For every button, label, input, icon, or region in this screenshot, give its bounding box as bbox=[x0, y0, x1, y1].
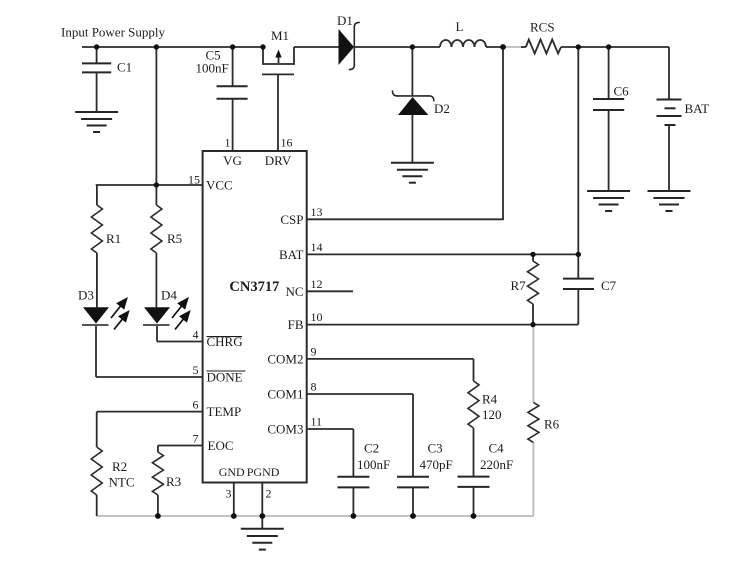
svg-text:C3: C3 bbox=[428, 441, 443, 456]
svg-text:CHRG: CHRG bbox=[207, 334, 243, 349]
svg-text:BAT: BAT bbox=[279, 247, 304, 262]
svg-text:FB: FB bbox=[288, 317, 304, 332]
svg-text:BAT: BAT bbox=[685, 101, 710, 116]
svg-text:D1: D1 bbox=[337, 13, 353, 28]
svg-text:NC: NC bbox=[285, 284, 303, 299]
svg-text:11: 11 bbox=[311, 415, 323, 429]
svg-text:COM1: COM1 bbox=[267, 387, 303, 402]
svg-text:CN3717: CN3717 bbox=[229, 279, 279, 295]
svg-text:VCC: VCC bbox=[206, 178, 233, 193]
svg-text:2: 2 bbox=[266, 487, 272, 501]
svg-text:4: 4 bbox=[193, 328, 199, 342]
svg-text:9: 9 bbox=[311, 344, 317, 358]
svg-text:120: 120 bbox=[482, 407, 502, 422]
svg-text:C2: C2 bbox=[364, 441, 379, 456]
svg-text:5: 5 bbox=[193, 363, 199, 377]
svg-text:1: 1 bbox=[225, 136, 231, 150]
svg-text:C7: C7 bbox=[601, 278, 617, 293]
svg-text:470pF: 470pF bbox=[420, 457, 453, 472]
svg-text:CSP: CSP bbox=[280, 212, 303, 227]
svg-text:R4: R4 bbox=[482, 392, 498, 407]
svg-text:10: 10 bbox=[311, 310, 323, 324]
svg-text:R1: R1 bbox=[106, 231, 121, 246]
svg-text:220nF: 220nF bbox=[480, 457, 513, 472]
svg-text:3: 3 bbox=[226, 487, 232, 501]
svg-text:C1: C1 bbox=[117, 60, 132, 75]
svg-text:C4: C4 bbox=[489, 441, 505, 456]
svg-text:RCS: RCS bbox=[530, 20, 555, 35]
svg-text:PGND: PGND bbox=[247, 465, 280, 479]
svg-text:D3: D3 bbox=[78, 288, 94, 303]
svg-text:R5: R5 bbox=[167, 231, 182, 246]
svg-text:6: 6 bbox=[193, 398, 199, 412]
svg-text:GND: GND bbox=[219, 465, 245, 479]
svg-text:COM2: COM2 bbox=[267, 351, 303, 366]
svg-text:NTC: NTC bbox=[109, 475, 135, 490]
svg-text:100nF: 100nF bbox=[357, 457, 390, 472]
svg-text:EOC: EOC bbox=[208, 438, 234, 453]
svg-text:DONE: DONE bbox=[207, 369, 243, 384]
svg-text:R3: R3 bbox=[166, 474, 181, 489]
svg-text:COM3: COM3 bbox=[267, 422, 303, 437]
svg-text:D4: D4 bbox=[161, 288, 177, 303]
svg-text:VG: VG bbox=[223, 153, 242, 168]
svg-text:100nF: 100nF bbox=[196, 61, 229, 76]
svg-text:M1: M1 bbox=[271, 28, 289, 43]
svg-text:L: L bbox=[456, 19, 464, 34]
svg-text:14: 14 bbox=[311, 240, 323, 254]
svg-text:15: 15 bbox=[188, 173, 200, 187]
svg-text:16: 16 bbox=[281, 136, 293, 150]
svg-text:DRV: DRV bbox=[265, 153, 292, 168]
svg-text:7: 7 bbox=[193, 432, 199, 446]
svg-text:R6: R6 bbox=[544, 417, 560, 432]
svg-text:12: 12 bbox=[311, 277, 323, 291]
svg-text:R2: R2 bbox=[112, 459, 127, 474]
svg-text:TEMP: TEMP bbox=[207, 404, 242, 419]
svg-text:Input Power Supply: Input Power Supply bbox=[61, 25, 166, 40]
svg-text:D2: D2 bbox=[434, 101, 450, 116]
svg-text:C6: C6 bbox=[614, 84, 630, 99]
svg-text:R7: R7 bbox=[511, 278, 527, 293]
svg-text:8: 8 bbox=[311, 380, 317, 394]
svg-text:13: 13 bbox=[311, 205, 323, 219]
